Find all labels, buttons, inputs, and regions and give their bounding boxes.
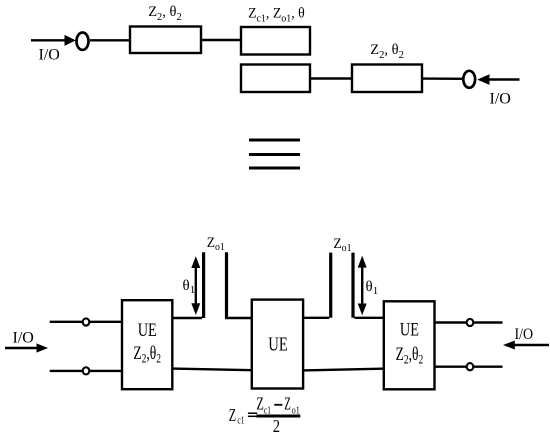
svg-text:I/O: I/O [490, 91, 511, 108]
svg-text:UE: UE [138, 319, 157, 340]
svg-text:I/O: I/O [515, 326, 534, 343]
svg-text:I/O: I/O [13, 330, 34, 347]
svg-text:o1: o1 [292, 404, 300, 415]
svg-text:Z: Z [256, 394, 263, 414]
svg-text:I/O: I/O [39, 47, 60, 64]
svg-text:UE: UE [400, 319, 419, 340]
svg-text:UE: UE [268, 334, 287, 355]
svg-text:2: 2 [273, 416, 280, 437]
svg-text:Z: Z [229, 406, 236, 426]
svg-text:c1: c1 [237, 414, 244, 425]
svg-text:c1: c1 [264, 404, 271, 415]
svg-text:Z: Z [284, 395, 291, 414]
